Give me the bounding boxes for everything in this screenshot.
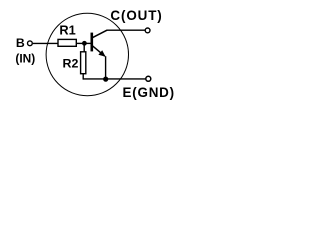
resistor R2 — [81, 52, 86, 74]
emitter rail wire to E terminal — [83, 78, 145, 80]
svg-text:(IN): (IN) — [15, 51, 35, 65]
node junction dot at base — [82, 41, 87, 46]
terminal B (IN) open circle — [28, 41, 33, 46]
terminal E (GND) open circle — [146, 76, 151, 81]
transistor Q1 emitter stroke with arrow — [93, 46, 105, 56]
svg-text:B: B — [16, 36, 25, 50]
wire collector to C terminal — [107, 29, 145, 31]
wire B to R1 — [33, 42, 58, 44]
resistor R1 — [58, 39, 76, 46]
wire R2 to emitter rail — [82, 74, 84, 80]
svg-text:R1: R1 — [59, 22, 75, 37]
transistor Q1 collector stroke — [93, 30, 108, 37]
wire node down to R2 — [83, 43, 85, 52]
node junction dot emitter rail — [103, 77, 108, 82]
wire emitter vertical — [105, 56, 107, 79]
wire R1 to base — [77, 42, 91, 44]
svg-text:R2: R2 — [63, 56, 79, 70]
svg-text:E(GND): E(GND) — [123, 85, 175, 100]
transistor Q1 base bar — [91, 33, 94, 52]
terminal C (OUT) open circle — [145, 28, 150, 33]
svg-text:C(OUT): C(OUT) — [110, 8, 162, 23]
component outline circle — [46, 13, 128, 95]
